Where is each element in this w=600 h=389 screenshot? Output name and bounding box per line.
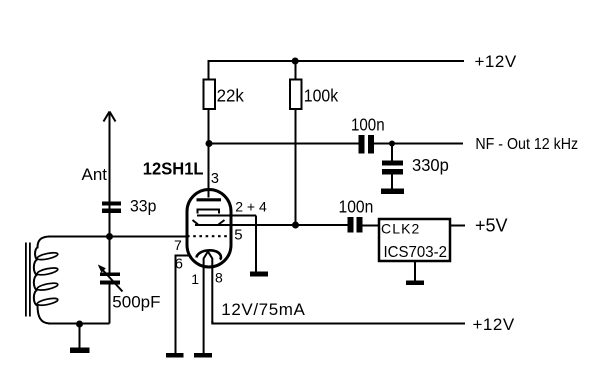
svg-text:+12V: +12V bbox=[473, 315, 515, 334]
svg-text:100n: 100n bbox=[351, 114, 385, 135]
svg-text:ICS703-2: ICS703-2 bbox=[384, 243, 448, 261]
svg-text:22k: 22k bbox=[217, 85, 245, 106]
svg-text:100k: 100k bbox=[304, 86, 339, 106]
svg-text:NF - Out 12 kHz: NF - Out 12 kHz bbox=[475, 135, 578, 153]
svg-text:2 + 4: 2 + 4 bbox=[235, 198, 267, 214]
svg-text:500pF: 500pF bbox=[112, 292, 160, 311]
svg-text:CLK2: CLK2 bbox=[381, 221, 420, 237]
svg-text:6: 6 bbox=[175, 256, 183, 272]
svg-text:330p: 330p bbox=[412, 154, 449, 175]
svg-text:12V/75mA: 12V/75mA bbox=[221, 300, 305, 319]
svg-text:Ant: Ant bbox=[82, 165, 108, 184]
svg-text:8: 8 bbox=[215, 270, 223, 286]
svg-text:5: 5 bbox=[234, 227, 242, 244]
svg-text:12SH1L: 12SH1L bbox=[143, 158, 204, 179]
svg-text:+12V: +12V bbox=[475, 52, 517, 71]
svg-text:7: 7 bbox=[174, 237, 182, 253]
svg-text:33p: 33p bbox=[130, 197, 156, 216]
svg-text:100n: 100n bbox=[339, 196, 374, 216]
svg-text:+5V: +5V bbox=[475, 215, 508, 235]
svg-text:1: 1 bbox=[191, 271, 199, 287]
svg-text:3: 3 bbox=[211, 171, 219, 187]
